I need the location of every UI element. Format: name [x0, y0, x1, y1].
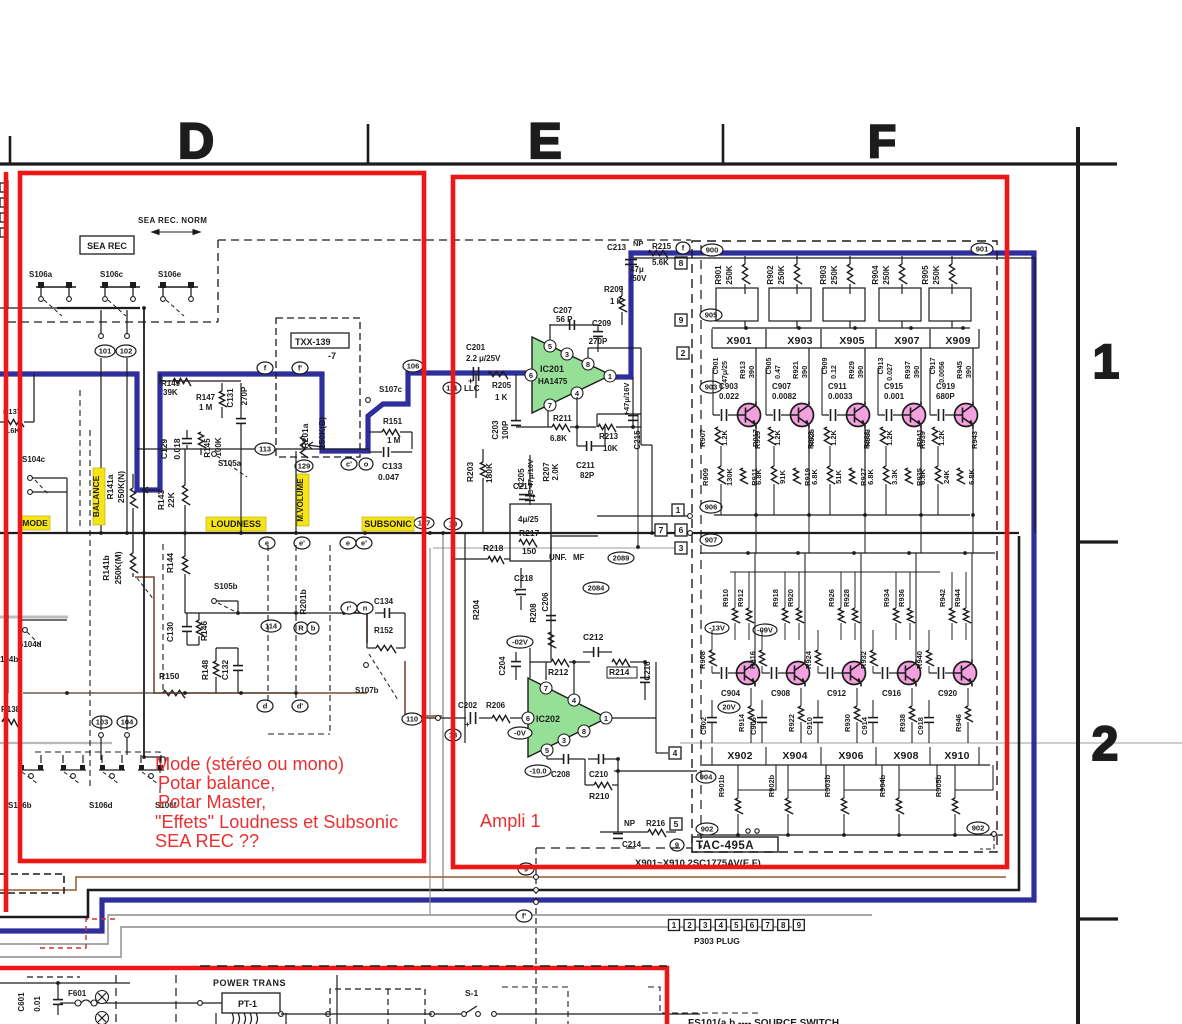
- svg-text:39K: 39K: [163, 388, 178, 397]
- row1 to row2 connectors: [755, 533, 757, 553]
- svg-text:C218: C218: [514, 574, 534, 583]
- wire loop R902a: [769, 288, 811, 321]
- svg-text:680P: 680P: [936, 392, 955, 401]
- svg-text:7: 7: [765, 921, 770, 930]
- resistor R150: [163, 690, 185, 698]
- node f-prime oval on bus: [516, 910, 532, 922]
- node 106 oval: [403, 360, 423, 372]
- svg-text:IC202: IC202: [536, 714, 560, 724]
- svg-text:C207: C207: [553, 306, 573, 315]
- svg-text:R940: R940: [915, 651, 924, 669]
- svg-text:3: 3: [703, 921, 708, 930]
- switch S105b: [212, 599, 217, 604]
- resistor R205 on input: [488, 371, 508, 379]
- svg-text:C601: C601: [17, 992, 26, 1012]
- svg-text:R918: R918: [771, 589, 780, 607]
- wires X903 collector emitter: [808, 348, 810, 402]
- svg-text:906: 906: [705, 503, 718, 512]
- svg-text:d': d': [297, 702, 304, 711]
- capacitor C215: [628, 415, 638, 417]
- svg-text:390: 390: [964, 366, 973, 379]
- svg-text:SEA REC: SEA REC: [87, 241, 127, 251]
- svg-text:NP: NP: [633, 239, 643, 248]
- row1 bottom rail: [714, 514, 970, 516]
- node 114 oval: [261, 620, 281, 632]
- svg-text:R218: R218: [483, 543, 504, 553]
- svg-text:7: 7: [659, 525, 664, 535]
- svg-text:b: b: [311, 624, 316, 633]
- resistor R144: [182, 556, 190, 574]
- svg-text:0.0033: 0.0033: [828, 392, 853, 401]
- svg-text:C204: C204: [498, 656, 507, 676]
- node n oval: [357, 602, 373, 614]
- wire pin1 feedback net: [632, 377, 634, 427]
- switch S107b dash: [369, 654, 398, 700]
- svg-text:FS101(a,b ---- SOURCE SWITCH: FS101(a,b ---- SOURCE SWITCH: [688, 1018, 839, 1024]
- svg-text:1: 1: [1093, 336, 1120, 389]
- svg-text:R901: R901: [714, 265, 723, 285]
- frame top border line: [0, 162, 1117, 165]
- svg-text:4μ/25: 4μ/25: [518, 515, 539, 524]
- svg-text:R929: R929: [847, 361, 856, 379]
- capacitor C201: [472, 367, 474, 381]
- dashed wires TXX lower: [267, 545, 269, 700]
- svg-text:6.8K: 6.8K: [967, 468, 976, 484]
- svg-text:R921: R921: [791, 361, 800, 379]
- svg-text:2: 2: [681, 348, 686, 358]
- dashed wire x90: [89, 430, 91, 790]
- bus wire black thick: [0, 536, 1019, 917]
- dashed wire x80: [79, 390, 81, 530]
- power dashed box mid: [648, 987, 760, 1013]
- node d-prime oval: [292, 700, 308, 712]
- svg-text:1.2K: 1.2K: [773, 429, 782, 445]
- node 900 oval left: [701, 244, 723, 256]
- switch S106a contacts: [36, 286, 76, 288]
- wire pin7 up: [545, 662, 547, 682]
- svg-text:TAC-495A: TAC-495A: [696, 840, 754, 852]
- svg-text:C915: C915: [884, 382, 904, 391]
- power dashed box right: [502, 987, 568, 1024]
- svg-text:+: +: [513, 586, 518, 595]
- svg-text:"Effets" Loudness et Subsonic: "Effets" Loudness et Subsonic: [155, 812, 398, 832]
- svg-text:C902: C902: [699, 717, 708, 735]
- coupling capacitor C920: [929, 672, 937, 674]
- switch S104c contacts: [28, 476, 33, 481]
- brown trace S107b to node 110: [405, 661, 442, 716]
- svg-text:113: 113: [259, 445, 271, 454]
- svg-text:250K(N): 250K(N): [116, 471, 126, 503]
- svg-text:D: D: [178, 113, 214, 169]
- svg-text:1: 1: [608, 372, 612, 381]
- svg-text:2: 2: [1092, 718, 1119, 771]
- IC201 pin 6: [525, 369, 537, 381]
- svg-text:6: 6: [679, 525, 684, 535]
- svg-text:0.0056: 0.0056: [939, 361, 946, 383]
- svg-text:R903b: R903b: [823, 774, 832, 797]
- svg-text:6.8K: 6.8K: [550, 434, 567, 443]
- svg-text:S107c: S107c: [379, 385, 403, 394]
- svg-text:7: 7: [544, 684, 548, 693]
- svg-text:-7: -7: [328, 351, 336, 361]
- boxed pin 5: [670, 818, 682, 830]
- svg-text:R208: R208: [529, 603, 538, 623]
- svg-text:C908: C908: [771, 689, 791, 698]
- red box C around section E-F: [453, 177, 1007, 867]
- svg-text:d: d: [263, 702, 268, 711]
- transistor X908: [898, 662, 921, 685]
- dashed net top left: [8, 321, 218, 323]
- transformer dashed box: [330, 989, 425, 1024]
- switch S-1: [462, 1012, 467, 1017]
- svg-text:8: 8: [679, 258, 684, 268]
- bias resistors under X903: [771, 466, 779, 484]
- boxed pin 9: [675, 314, 687, 326]
- TAC-495A label box: [692, 837, 778, 852]
- node 2089 oval: [608, 552, 634, 564]
- svg-text:1.2K: 1.2K: [720, 429, 729, 445]
- svg-text:900: 900: [706, 246, 719, 255]
- row2 label row borders: [700, 764, 990, 766]
- transistor X906: [843, 662, 866, 685]
- svg-text:R946: R946: [954, 714, 963, 732]
- svg-text:f': f': [298, 364, 302, 373]
- transistor X901 (2SC1775AV): [738, 404, 761, 427]
- svg-text:R905: R905: [921, 265, 930, 285]
- node 107 oval: [414, 517, 434, 529]
- svg-text:POWER TRANS: POWER TRANS: [213, 978, 286, 988]
- wire loop R904a: [879, 288, 921, 321]
- wire X910 collector: [971, 553, 973, 661]
- svg-text:103: 103: [96, 718, 109, 727]
- capacitor C601: [53, 999, 63, 1001]
- capacitor C133: [383, 447, 385, 457]
- IC202 pin 6: [522, 712, 534, 724]
- svg-text:C910: C910: [805, 717, 814, 735]
- svg-text:F: F: [868, 115, 896, 167]
- svg-text:R215: R215: [652, 242, 672, 251]
- svg-text:Potar Master,: Potar Master,: [158, 792, 266, 812]
- resistor R204 wires: [485, 566, 487, 693]
- node e oval: [259, 537, 275, 549]
- svg-text:1.2K: 1.2K: [885, 429, 894, 445]
- svg-text:5: 5: [734, 921, 739, 930]
- capacitor under C914: [868, 717, 878, 719]
- wire pin5 up to C207: [549, 324, 551, 340]
- dashed box around S106b S106d S106f: [35, 752, 160, 795]
- svg-text:3: 3: [679, 543, 684, 553]
- boxed pin 4: [669, 747, 681, 759]
- svg-text:R: R: [298, 624, 304, 633]
- svg-text:3.3K: 3.3K: [890, 468, 899, 484]
- wires above IC202: [516, 647, 551, 649]
- wire loop R903a: [823, 288, 865, 321]
- svg-text:6: 6: [529, 371, 533, 380]
- svg-text:R902b: R902b: [767, 774, 776, 797]
- svg-text:R143: R143: [156, 490, 166, 511]
- coupling capacitor into X909 stage: [929, 368, 931, 415]
- svg-text:110: 110: [406, 715, 418, 724]
- transistor X905 (2SC1775AV): [847, 404, 870, 427]
- svg-text:R944: R944: [953, 588, 962, 607]
- svg-text:114: 114: [265, 622, 278, 631]
- svg-text:C132: C132: [220, 660, 230, 681]
- boxed pin 8: [675, 257, 687, 269]
- node 104 oval: [117, 716, 137, 728]
- svg-text:R936: R936: [897, 589, 906, 607]
- node d oval: [257, 700, 273, 712]
- svg-text:6.8K: 6.8K: [754, 468, 763, 484]
- svg-text:S106c: S106c: [100, 270, 124, 279]
- resistor R146: [196, 620, 204, 636]
- yellow label LOUDNESS: [206, 517, 266, 531]
- svg-text:5: 5: [548, 342, 552, 351]
- switch S104d wires: [7, 533, 9, 693]
- svg-text:X901: X901: [726, 335, 751, 347]
- svg-text:M.VOLUME: M.VOLUME: [296, 478, 305, 522]
- red box B around section D: [20, 173, 424, 861]
- R208 C206 parts: [550, 536, 552, 660]
- node 110 oval: [402, 713, 422, 725]
- power wires right: [520, 1013, 700, 1015]
- capacitor under C902: [707, 717, 717, 719]
- svg-text:6.8K: 6.8K: [810, 468, 819, 484]
- svg-text:Potar balance,: Potar balance,: [158, 773, 275, 793]
- wire contacts under 103 104: [99, 733, 104, 738]
- IC202 pin 4: [568, 694, 580, 706]
- svg-text:1.2K: 1.2K: [937, 429, 946, 445]
- node 113 oval: [255, 443, 275, 455]
- wires filter net: [455, 558, 488, 560]
- svg-text:390: 390: [912, 366, 921, 379]
- row divider line 1/2 left: [0, 742, 112, 744]
- svg-text:S106e: S106e: [158, 270, 182, 279]
- svg-text:390: 390: [747, 366, 756, 379]
- svg-text:56 P: 56 P: [556, 315, 573, 324]
- capacitor C207: [550, 324, 598, 326]
- svg-text:106: 106: [407, 362, 420, 371]
- svg-text:S105a: S105a: [218, 459, 242, 468]
- svg-text:μ/25V: μ/25V: [479, 354, 501, 363]
- svg-text:R907: R907: [698, 429, 707, 447]
- node 905 oval: [700, 309, 722, 321]
- wire loop R904b: [899, 765, 937, 790]
- svg-text:C131: C131: [226, 388, 235, 408]
- main selector vertical wire: [143, 308, 145, 757]
- svg-text:R901b: R901b: [717, 774, 726, 797]
- svg-text:129: 129: [298, 462, 311, 471]
- svg-text:X906: X906: [838, 750, 863, 762]
- TAC dashed bottom extension: [536, 847, 692, 849]
- switch S106c contacts: [100, 286, 140, 288]
- TAC block black border right upper: [1034, 258, 1036, 533]
- wire pin4 up: [573, 662, 575, 694]
- svg-text:82P: 82P: [580, 471, 595, 480]
- IC201 pin 7: [544, 399, 556, 411]
- svg-text:S-1: S-1: [465, 988, 479, 998]
- svg-text:C203: C203: [491, 420, 500, 440]
- IC202 pin 5: [541, 744, 553, 756]
- svg-text:250K: 250K: [725, 265, 734, 284]
- svg-text:R909: R909: [701, 468, 710, 486]
- switch S106e contacts: [158, 286, 198, 288]
- svg-text:E: E: [528, 113, 561, 169]
- filter box UNF: [510, 504, 551, 561]
- transistor X903 (2SC1775AV): [791, 404, 814, 427]
- svg-text:C917: C917: [930, 358, 937, 375]
- node -09V oval: [753, 624, 777, 636]
- svg-text:7: 7: [548, 401, 552, 410]
- svg-text:2: 2: [687, 921, 692, 930]
- svg-text:r': r': [347, 604, 352, 613]
- node f-prime oval 2: [292, 362, 308, 374]
- svg-text:C211: C211: [576, 461, 595, 470]
- svg-text:C907: C907: [772, 382, 792, 391]
- capacitor C132: [233, 665, 243, 667]
- node 102 oval: [116, 345, 136, 357]
- svg-text:C134: C134: [374, 597, 394, 606]
- svg-text:C906: C906: [749, 717, 758, 735]
- svg-text:1.2K: 1.2K: [829, 429, 838, 445]
- svg-text:R203: R203: [465, 462, 475, 483]
- svg-text:LOUDNESS: LOUDNESS: [211, 519, 261, 529]
- svg-text:6: 6: [526, 714, 530, 723]
- wires to TAC boxed 4: [656, 752, 668, 754]
- vertical wires E to bus: [596, 585, 598, 706]
- svg-text:8: 8: [582, 727, 586, 736]
- node 18 oval: [445, 729, 461, 741]
- wires X909 collector emitter: [972, 348, 974, 402]
- svg-text:101: 101: [99, 347, 112, 356]
- node 904 oval: [696, 771, 716, 783]
- svg-text:-0V: -0V: [514, 729, 526, 738]
- svg-text:X910: X910: [944, 750, 969, 762]
- node c-prime oval: [341, 458, 357, 470]
- svg-text:R152: R152: [374, 626, 394, 635]
- wires X905 collector emitter: [864, 348, 866, 402]
- svg-text:X905: X905: [839, 335, 864, 347]
- svg-text:TXX-139: TXX-139: [295, 337, 331, 347]
- svg-text:R151: R151: [383, 417, 403, 426]
- svg-text:1 K: 1 K: [495, 393, 508, 402]
- svg-text:903: 903: [705, 383, 718, 392]
- wire pin7 down to C203: [547, 411, 549, 427]
- svg-text:BALANCE: BALANCE: [91, 475, 101, 517]
- svg-text:390: 390: [856, 366, 865, 379]
- dashed box TXX-139: [276, 318, 360, 457]
- wire taps to nodes 101 102: [100, 310, 102, 334]
- svg-text:250K: 250K: [830, 265, 839, 284]
- svg-text:R924: R924: [804, 650, 813, 669]
- svg-text:C909: C909: [822, 358, 829, 375]
- wire loudness net verticals: [240, 449, 242, 533]
- svg-text:R932: R932: [859, 651, 868, 669]
- boxed pin 6: [675, 524, 687, 536]
- node 103 oval: [92, 716, 112, 728]
- svg-text:R147: R147: [196, 393, 216, 402]
- column tick A|D: [9, 136, 12, 164]
- resistor R941 1.2K: [932, 427, 940, 445]
- svg-text:C916: C916: [882, 689, 902, 698]
- row2 second rail: [730, 571, 940, 573]
- svg-text:5: 5: [674, 819, 679, 829]
- potentiometer R201a resistor: [300, 436, 308, 458]
- node -0V oval: [508, 727, 532, 739]
- svg-text:C206: C206: [541, 592, 550, 612]
- bus wire tan: [0, 877, 1006, 890]
- svg-text:SEA REC ??: SEA REC ??: [155, 831, 259, 851]
- dashed net riser: [217, 240, 219, 322]
- svg-text:104b: 104b: [0, 655, 18, 664]
- svg-text:-10.0: -10.0: [529, 767, 546, 776]
- svg-text:100P: 100P: [501, 420, 510, 439]
- dashed net to section E: [218, 239, 691, 241]
- transformer windings: [232, 1013, 234, 1024]
- row2 bottom rail: [697, 834, 1003, 836]
- svg-text:R903: R903: [819, 265, 828, 285]
- svg-text:R913: R913: [738, 361, 747, 379]
- svg-text:C904: C904: [721, 689, 741, 698]
- svg-text:R214: R214: [609, 667, 630, 677]
- left edge connector squares: [0, 183, 7, 192]
- P303 plug boxed pins 1-9: [669, 920, 680, 931]
- transformer PT-1 box: [222, 993, 280, 1013]
- transistor X904: [787, 662, 810, 685]
- wire 902 right stub: [990, 833, 994, 835]
- svg-text:SUBSONIC: SUBSONIC: [364, 519, 412, 529]
- svg-text:R210: R210: [589, 791, 610, 801]
- gray wire from section E down to bus 1: [429, 548, 431, 915]
- svg-text:901: 901: [976, 245, 989, 254]
- X label row borders: [712, 347, 979, 349]
- svg-text:R216: R216: [646, 819, 666, 828]
- wire node 102 down: [126, 358, 128, 533]
- node 2084 oval: [583, 582, 609, 594]
- svg-text:47μ: 47μ: [630, 265, 644, 274]
- switch S106f contacts 2: [138, 769, 164, 771]
- capacitor C131: [236, 418, 246, 420]
- junction circles on bus: [534, 875, 539, 880]
- row2 top rail: [700, 552, 995, 554]
- svg-text:2.2: 2.2: [466, 354, 478, 363]
- svg-text:2084: 2084: [588, 584, 606, 593]
- svg-text:6: 6: [750, 921, 755, 930]
- svg-text:X903: X903: [787, 335, 812, 347]
- svg-text:R928: R928: [842, 589, 851, 607]
- R141b wiper dashes: [137, 578, 154, 600]
- svg-text:S107b: S107b: [355, 686, 379, 695]
- svg-text:R209: R209: [604, 285, 624, 294]
- svg-text:R141b: R141b: [101, 555, 111, 581]
- svg-text:R211: R211: [553, 414, 572, 423]
- capacitor C214: [613, 833, 623, 835]
- row tick 2|3: [1078, 917, 1118, 920]
- svg-text:/50V: /50V: [630, 274, 647, 283]
- svg-text:R902: R902: [766, 265, 775, 285]
- capacitor C213: [625, 259, 637, 261]
- svg-text:o: o: [364, 460, 369, 469]
- svg-text:5.6K: 5.6K: [652, 258, 669, 267]
- wire volume b net: [241, 612, 365, 614]
- wire X904 collector: [804, 553, 806, 661]
- svg-text:91K: 91K: [778, 470, 787, 484]
- junction vertical to node 9 and f-prime: [535, 848, 537, 1024]
- blue trace op-amp output loop around TAC-495A block: [0, 253, 1034, 931]
- capacitor under C910: [813, 717, 823, 719]
- node -02V oval: [507, 636, 533, 648]
- svg-text:0.01: 0.01: [33, 996, 42, 1012]
- capacitor under C906: [757, 717, 767, 719]
